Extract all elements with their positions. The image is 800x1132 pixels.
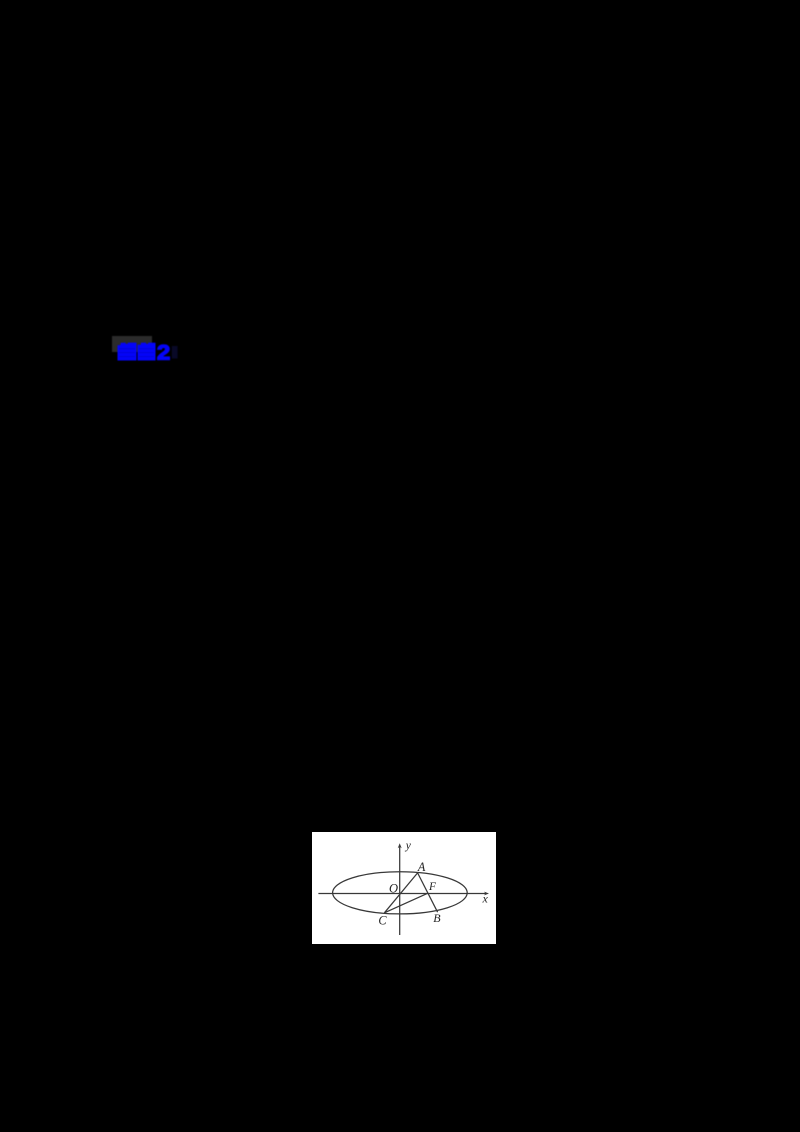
- chord A-C through O: [384, 873, 417, 913]
- x-axis: [318, 893, 486, 895]
- heading text (blue bold CJK-like glyphs + digit 2): [116, 340, 184, 364]
- ellipse: [333, 872, 468, 914]
- y-axis arrowhead: [398, 843, 402, 848]
- focal chord A-B through F: [418, 873, 438, 912]
- stroke gap texture: [119, 348, 154, 357]
- svg-text:F: F: [428, 881, 437, 893]
- digit 2: [157, 341, 170, 364]
- svg-text:y: y: [405, 840, 412, 852]
- svg-text:x: x: [482, 892, 489, 906]
- x-axis arrowhead: [484, 892, 489, 896]
- char 1 dense blob: [118, 343, 137, 361]
- svg-text:2: 2: [157, 341, 170, 364]
- char 2 dense blob: [138, 343, 156, 361]
- svg-text:C: C: [378, 914, 387, 928]
- segment C-F: [384, 893, 427, 913]
- y-axis: [399, 846, 401, 936]
- heading shadow box: [112, 336, 152, 352]
- dark shadow of digit: [172, 346, 178, 359]
- svg-text:B: B: [433, 911, 441, 925]
- svg-text:O: O: [389, 881, 398, 895]
- svg-text:A: A: [417, 860, 426, 874]
- diagram panel: [312, 832, 496, 944]
